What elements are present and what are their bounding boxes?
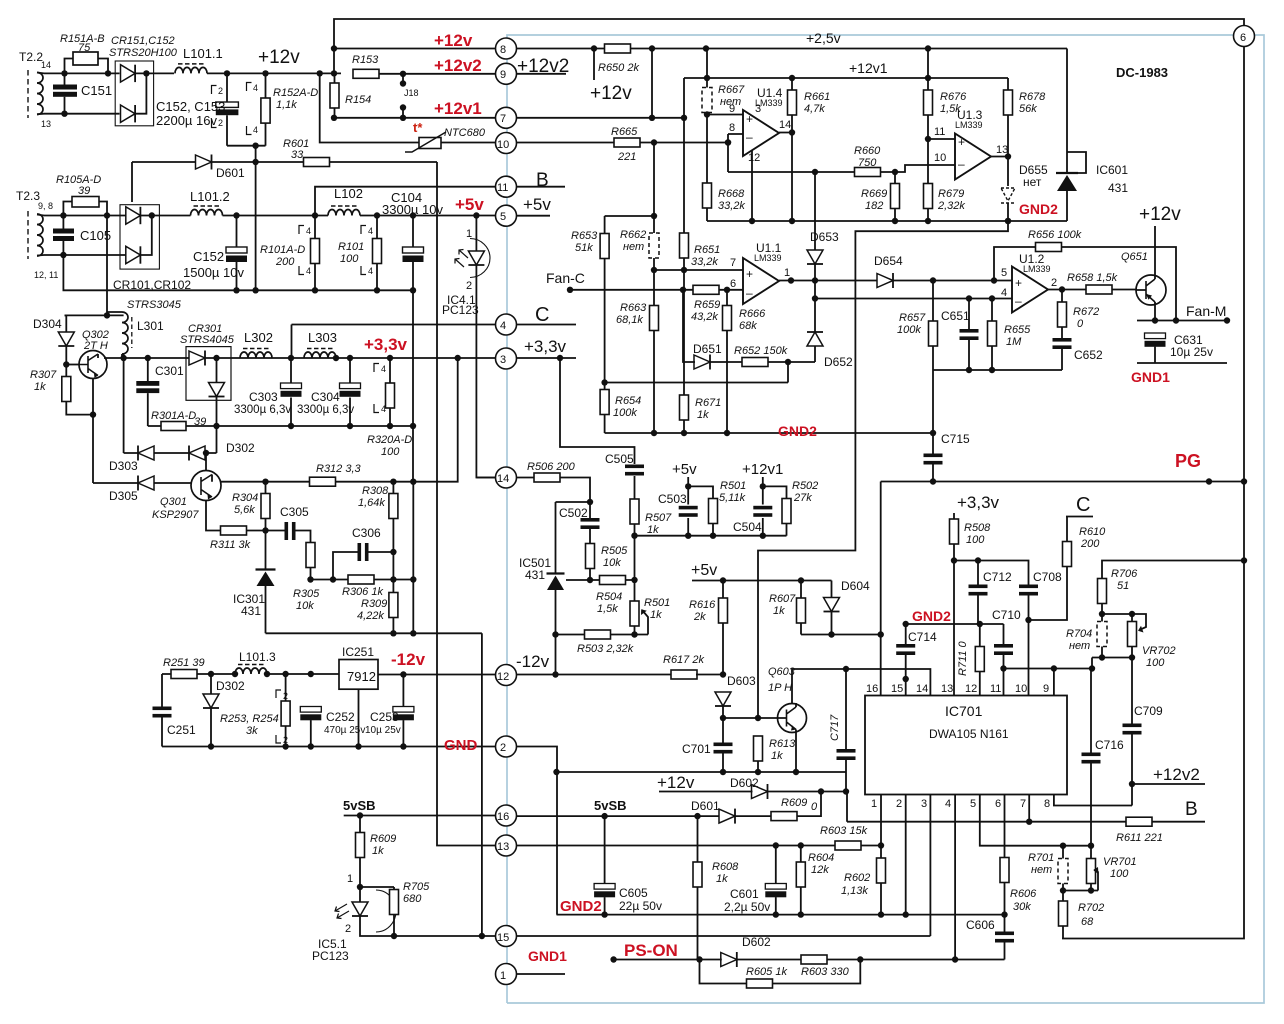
svg-text:Fan-C: Fan-C [546, 270, 585, 286]
resistor R711 [957, 624, 984, 696]
svg-text:нет: нет [623, 241, 644, 253]
svg-text:C: C [1076, 494, 1090, 516]
svg-text:R307: R307 [30, 369, 57, 381]
resistor R678 [1004, 78, 1047, 157]
svg-text:43,2k: 43,2k [691, 311, 718, 323]
svg-text:R610: R610 [1079, 526, 1106, 538]
node 6 [1234, 26, 1255, 47]
wire +5v flag rail [692, 580, 832, 582]
resistor R502 27k [763, 480, 818, 536]
svg-text:5: 5 [970, 798, 976, 810]
svg-text:68: 68 [1081, 916, 1094, 928]
svg-text:R320A-D: R320A-D [367, 434, 412, 446]
svg-text:R705: R705 [403, 881, 430, 893]
svg-text:2,32k: 2,32k [937, 200, 965, 212]
IC IC701 [865, 683, 1067, 810]
resistor R602 [841, 858, 886, 915]
svg-text:13: 13 [941, 683, 953, 695]
svg-text:R505: R505 [601, 545, 628, 557]
svg-text:68k: 68k [739, 320, 757, 332]
svg-text:56k: 56k [1019, 103, 1037, 115]
resistor R301A-D [151, 410, 206, 431]
node 5 [496, 205, 517, 226]
svg-text:B: B [536, 170, 549, 191]
svg-text:750: 750 [858, 157, 877, 169]
resistor R671 [680, 270, 722, 433]
wire D604 bottom row [801, 634, 881, 636]
wire B row [847, 821, 1205, 823]
wire x107 33v feed [107, 216, 122, 313]
svg-text:5: 5 [1001, 267, 1007, 279]
resistor R503 [556, 630, 649, 655]
diode D601 standby [691, 799, 735, 824]
diode D655 nyet [1001, 163, 1048, 221]
svg-text:R503 2,32k: R503 2,32k [577, 643, 634, 655]
svg-text:7: 7 [730, 257, 736, 269]
svg-text:C601: C601 [730, 887, 759, 901]
svg-text:68,1k: 68,1k [616, 314, 643, 326]
svg-text:4: 4 [381, 404, 386, 414]
svg-text:D651: D651 [693, 342, 722, 356]
svg-text:R312 3,3: R312 3,3 [316, 463, 362, 475]
svg-text:9: 9 [1043, 683, 1049, 695]
resistor R101A-D [260, 216, 320, 291]
diode D302 minus12 [203, 674, 245, 747]
wire rail 13 right [517, 845, 882, 847]
diode D602 [659, 776, 849, 799]
resistor R654 [600, 390, 641, 434]
svg-text:R666: R666 [739, 308, 766, 320]
svg-text:9: 9 [500, 69, 506, 81]
svg-text:R306 1k: R306 1k [342, 586, 383, 598]
wire 33v feed row [65, 314, 124, 316]
svg-text:33: 33 [291, 149, 304, 161]
svg-text:-12v: -12v [516, 652, 550, 671]
diode D652 [807, 264, 853, 369]
svg-text:4: 4 [306, 266, 311, 276]
node 13 [496, 835, 517, 856]
diode D304 [33, 315, 74, 376]
bridge rectifier CR101,CR102 [113, 205, 191, 311]
svg-text:8: 8 [500, 44, 506, 56]
svg-text:LM339: LM339 [755, 98, 783, 108]
resistor R617 [663, 654, 723, 679]
svg-text:+3,3v: +3,3v [957, 493, 1000, 512]
svg-text:L101.2: L101.2 [190, 189, 230, 204]
svg-text:1: 1 [500, 970, 506, 982]
svg-text:R660: R660 [854, 145, 881, 157]
svg-text:10k: 10k [603, 557, 621, 569]
svg-text:T2.2: T2.2 [19, 50, 43, 64]
diode D601 [196, 155, 246, 181]
svg-text:13: 13 [497, 841, 509, 853]
svg-text:R311 3k: R311 3k [210, 539, 251, 551]
wire vr701 bottom [1063, 890, 1098, 892]
resistor R504 [566, 576, 638, 616]
svg-text:GND2: GND2 [778, 423, 817, 439]
svg-text:5vSB: 5vSB [343, 798, 376, 813]
wire GND1 bar [1137, 362, 1227, 364]
resistor R616 [689, 581, 728, 678]
resistor R658 [1067, 272, 1118, 294]
svg-text:R605 1k: R605 1k [746, 966, 787, 978]
svg-text:2: 2 [466, 280, 472, 292]
op-amp U1.1 [730, 241, 790, 304]
diode D651 [683, 290, 742, 370]
resistor R603 15k [820, 825, 868, 850]
svg-text:75: 75 [78, 42, 91, 54]
wire Q301 leads [206, 453, 221, 531]
svg-text:10k: 10k [296, 600, 314, 612]
transistor Q302 [79, 329, 109, 379]
svg-text:+12v: +12v [590, 83, 632, 104]
resistor R105A-D [56, 174, 107, 216]
svg-text:+12v: +12v [258, 47, 300, 68]
resistor R657 [897, 277, 938, 436]
svg-text:1: 1 [466, 228, 472, 240]
svg-text:R154: R154 [345, 94, 371, 106]
svg-text:R502: R502 [792, 480, 818, 492]
wire vr702 top row [1102, 613, 1132, 615]
wire +3,3v row [954, 561, 1244, 585]
svg-text:t*: t* [413, 120, 423, 135]
svg-text:9: 9 [729, 103, 735, 115]
wire U1.1 pin7 [654, 269, 743, 271]
svg-text:51: 51 [1117, 580, 1129, 592]
svg-text:27k: 27k [793, 492, 812, 504]
resistor R666 [723, 290, 767, 433]
resistor R154 [330, 74, 371, 118]
resistor R611 [1116, 817, 1163, 844]
svg-text:4: 4 [381, 364, 386, 374]
svg-text:200: 200 [275, 256, 295, 268]
pot R501 1k [630, 580, 670, 635]
pot VR702 [1128, 614, 1176, 669]
svg-text:14: 14 [41, 60, 51, 70]
svg-text:Q301: Q301 [160, 496, 187, 508]
svg-text:1k: 1k [650, 609, 662, 621]
svg-text:LM339: LM339 [1023, 264, 1051, 274]
wire L301 column [123, 354, 125, 454]
resistor R304 [232, 482, 270, 531]
resistor R661 [788, 78, 831, 221]
svg-text:+3,3v: +3,3v [364, 335, 408, 354]
svg-text:+2,5v: +2,5v [806, 30, 841, 46]
capacitor C708 [1019, 570, 1062, 696]
wire U1.2 out [1048, 289, 1136, 291]
svg-text:R655: R655 [1004, 324, 1031, 336]
resistor R605 bypass [700, 960, 861, 989]
regulator IC251 [339, 645, 378, 747]
capacitor C306 [333, 526, 397, 580]
svg-text:R653: R653 [571, 230, 598, 242]
svg-text:+12v1: +12v1 [434, 99, 482, 118]
svg-text:R501: R501 [644, 597, 670, 609]
svg-text:C504: C504 [733, 520, 762, 534]
wire T2.3 pin1211 [44, 254, 126, 256]
svg-text:15: 15 [891, 683, 903, 695]
svg-text:22µ 50v: 22µ 50v [619, 899, 662, 913]
svg-text:10µ 25v: 10µ 25v [1170, 345, 1213, 359]
diode D303 [109, 446, 154, 474]
svg-text:5,6k: 5,6k [234, 504, 255, 516]
svg-text:1k: 1k [716, 873, 728, 885]
svg-text:11: 11 [934, 126, 945, 138]
svg-text:GND2: GND2 [560, 898, 602, 915]
resistor R312 [310, 463, 362, 486]
resistor R604 [796, 846, 834, 915]
svg-text:R650 2k: R650 2k [598, 62, 639, 74]
wire +12v2 rail 9 [379, 73, 566, 75]
svg-text:R504: R504 [596, 591, 622, 603]
svg-text:10µ 25v: 10µ 25v [365, 725, 401, 736]
svg-text:15: 15 [497, 932, 509, 944]
svg-text:3300µ 6,3v: 3300µ 6,3v [234, 404, 291, 416]
shunt reg IC501 [519, 502, 590, 678]
svg-text:R501: R501 [720, 480, 746, 492]
wire rail 1 [517, 973, 566, 975]
node 2 [496, 736, 517, 757]
svg-text:2: 2 [218, 118, 223, 128]
resistor R311 [210, 526, 285, 551]
svg-text:C505: C505 [605, 452, 634, 466]
resistor R613 [754, 736, 797, 772]
wire Q603 base row [723, 717, 778, 719]
wire x707 link [706, 49, 708, 79]
wire R312 row [221, 358, 496, 482]
svg-text:нет: нет [1023, 175, 1042, 189]
svg-text:нет: нет [1031, 864, 1052, 876]
resistor R650 [598, 44, 639, 74]
svg-text:4: 4 [306, 226, 311, 236]
resistor R701 nyet [1028, 846, 1068, 891]
resistor R253,R254 [220, 674, 290, 747]
svg-text:R607: R607 [769, 593, 796, 605]
svg-text:100: 100 [381, 446, 400, 458]
resistor R669 [861, 172, 900, 221]
svg-text:+12v: +12v [657, 773, 695, 792]
svg-text:16: 16 [497, 811, 509, 823]
resistor R667 [702, 78, 745, 115]
svg-text:2: 2 [345, 923, 351, 935]
wire pin8 hook [1054, 795, 1132, 806]
wire pin6 R606 [1004, 795, 1006, 858]
svg-text:7: 7 [1020, 798, 1026, 810]
svg-text:R253, R254: R253, R254 [220, 713, 279, 725]
svg-text:C710: C710 [992, 608, 1021, 622]
resistor R608 [693, 816, 739, 959]
svg-text:1k: 1k [773, 605, 785, 617]
wire U1.2 pin4 row [815, 298, 1012, 300]
svg-text:+3,3v: +3,3v [524, 337, 567, 356]
svg-text:4: 4 [500, 320, 506, 332]
blue bus [507, 35, 1264, 1003]
resistor R306 [307, 575, 416, 598]
svg-text:30k: 30k [1013, 901, 1031, 913]
svg-text:C716: C716 [1095, 738, 1124, 752]
wire Q302 base [66, 364, 79, 366]
svg-text:3: 3 [500, 354, 506, 366]
svg-text:1k: 1k [372, 845, 384, 857]
transistor Q603 [768, 666, 807, 734]
svg-text:14: 14 [779, 119, 791, 131]
svg-text:10: 10 [497, 139, 509, 151]
svg-text:C701: C701 [682, 742, 711, 756]
svg-text:D302: D302 [216, 679, 245, 693]
transformer T2.3 [16, 189, 58, 280]
wire pin1 R602 [880, 795, 882, 859]
svg-text:4: 4 [253, 83, 258, 93]
svg-text:R662: R662 [620, 229, 646, 241]
svg-text:12: 12 [965, 683, 977, 695]
resistor R508 [950, 513, 992, 696]
resistor R151A-B [60, 33, 108, 73]
wire pin4 [954, 795, 956, 960]
svg-text:STRS20H100: STRS20H100 [109, 47, 178, 59]
node 7 [496, 107, 517, 128]
svg-text:51k: 51k [575, 242, 593, 254]
capacitor C716 [1082, 669, 1125, 849]
capacitor C714 [896, 624, 937, 696]
svg-text:C305: C305 [280, 505, 309, 519]
wire Q302 emitter [93, 354, 98, 483]
svg-text:+12v1: +12v1 [849, 60, 888, 76]
resistor R704 nyet [1066, 614, 1107, 658]
svg-text:D303: D303 [109, 459, 138, 473]
svg-text:4: 4 [368, 226, 373, 236]
svg-text:L101.1: L101.1 [183, 46, 223, 61]
svg-text:–: – [746, 286, 753, 300]
capacitor C105 [53, 216, 111, 259]
wire +12v1 upper rail [684, 78, 1008, 118]
svg-text:1k: 1k [771, 750, 783, 762]
svg-text:J18: J18 [404, 88, 419, 98]
svg-text:R101: R101 [338, 241, 364, 253]
svg-text:C503: C503 [658, 492, 687, 506]
wire pin5 vr701 row [980, 795, 1091, 846]
wire R660 row [728, 165, 955, 172]
svg-text:2k: 2k [693, 611, 706, 623]
resistor R501 5,11k [688, 480, 746, 536]
svg-text:нет: нет [1069, 640, 1090, 652]
svg-text:8: 8 [1044, 798, 1050, 810]
wire base feed from U1.3 [758, 221, 1008, 718]
svg-text:+5v: +5v [455, 195, 484, 214]
inductor L303 [304, 330, 337, 358]
wire U1.4 pin9 [707, 114, 743, 116]
resistor R705 [390, 881, 431, 939]
svg-text:DC-1983: DC-1983 [1116, 65, 1168, 80]
svg-text:R604: R604 [808, 852, 834, 864]
resistor R706 [1098, 568, 1139, 617]
wire GND rail 2 [162, 747, 557, 915]
svg-text:L102: L102 [334, 186, 363, 201]
capacitor C504 [733, 477, 772, 536]
svg-text:+12v2: +12v2 [1153, 765, 1200, 784]
thermistor NTC680 [320, 73, 496, 152]
resistor R610 [1029, 517, 1107, 621]
svg-text:NTC680: NTC680 [444, 127, 486, 139]
resistor R603 330 [801, 955, 850, 978]
svg-text:1,13k: 1,13k [841, 885, 868, 897]
resistor R665 [611, 126, 640, 163]
svg-text:R676: R676 [940, 91, 967, 103]
resistor R505 [586, 544, 629, 584]
svg-text:R651: R651 [694, 244, 720, 256]
capacitor C601 [724, 846, 786, 915]
diode D305 [109, 476, 154, 504]
op-amp U1.2 [1001, 252, 1057, 313]
svg-text:100: 100 [1146, 657, 1165, 669]
svg-text:C708: C708 [1033, 570, 1062, 584]
wire D601 row [132, 162, 437, 202]
svg-text:R603 15k: R603 15k [820, 825, 868, 837]
capacitor C715 [924, 432, 971, 482]
resistor R672 [1058, 290, 1100, 339]
svg-text:C306: C306 [352, 526, 381, 540]
capacitor C305 [280, 505, 309, 540]
wire +12v1 rail 7 [334, 117, 684, 119]
svg-text:1,1k: 1,1k [276, 99, 297, 111]
svg-text:R602: R602 [844, 872, 870, 884]
wire U1.4 out [752, 133, 792, 222]
capacitor C152 [183, 216, 247, 291]
resistor R702 [1059, 891, 1105, 939]
wire +12v stub [593, 49, 595, 81]
svg-text:2: 2 [896, 798, 902, 810]
svg-text:R508: R508 [964, 522, 991, 534]
svg-text:10: 10 [934, 152, 946, 164]
svg-text:D302: D302 [226, 441, 255, 455]
svg-text:1k: 1k [647, 524, 659, 536]
wire R656 loop [994, 247, 1176, 321]
svg-text:L302: L302 [244, 330, 273, 345]
svg-text:+12v: +12v [1139, 204, 1181, 225]
svg-text:12k: 12k [811, 864, 829, 876]
svg-text:4: 4 [253, 125, 258, 135]
svg-text:14: 14 [497, 473, 509, 485]
diode D604 [824, 579, 871, 635]
svg-text:100k: 100k [613, 407, 637, 419]
svg-text:1P H: 1P H [768, 682, 792, 694]
svg-text:D601: D601 [216, 166, 245, 180]
svg-text:D601: D601 [691, 799, 720, 813]
svg-text:6: 6 [995, 798, 1001, 810]
svg-text:4,22k: 4,22k [357, 610, 384, 622]
inductor L101.3 [235, 650, 276, 674]
bridge rectifier CR151,C152 [109, 35, 178, 126]
svg-text:11: 11 [990, 683, 1001, 695]
svg-text:GND2: GND2 [1019, 201, 1058, 217]
capacitor C717 [829, 669, 856, 822]
svg-text:2: 2 [1051, 277, 1057, 289]
svg-text:C: C [535, 304, 549, 326]
resistor R679 [924, 136, 966, 221]
svg-text:16: 16 [866, 683, 878, 695]
transistor Q651 [1121, 226, 1166, 321]
svg-text:L301: L301 [137, 319, 164, 333]
svg-text:R658 1,5k: R658 1,5k [1067, 272, 1118, 284]
wire GND2 bottom row [557, 914, 1005, 916]
svg-text:R663: R663 [620, 302, 647, 314]
svg-text:–: – [958, 157, 965, 171]
svg-text:R678: R678 [1019, 91, 1046, 103]
wire vr702 bottom row [1092, 658, 1132, 669]
svg-text:C303: C303 [249, 390, 278, 404]
diode D654 [874, 254, 903, 288]
wire sense row [635, 535, 787, 537]
svg-text:R506 200: R506 200 [527, 461, 576, 473]
